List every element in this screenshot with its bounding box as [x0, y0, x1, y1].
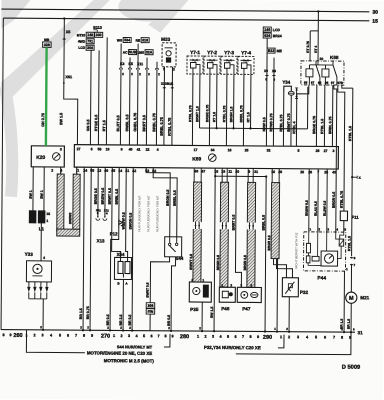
tag stub wire 2: [129, 58, 131, 68]
svg-text:RUB: RUB: [129, 50, 137, 54]
svg-text:30: 30: [320, 57, 324, 61]
svg-text:87B: 87B: [337, 81, 343, 85]
K20 symbol circle: [52, 153, 60, 161]
svg-text:BRGE 0.75: BRGE 0.75: [205, 105, 209, 123]
wire pin 15 down: [215, 168, 266, 176]
injector Y7-4 collector dot: [249, 127, 251, 129]
svg-text:P35: P35: [190, 307, 199, 312]
svg-text:X9: X9: [264, 69, 268, 73]
wire pin15 dots: [214, 175, 216, 177]
svg-text:X61: X61: [65, 75, 72, 79]
svg-text:8: 8: [83, 334, 85, 338]
svg-text:BRGN 0.5: BRGN 0.5: [332, 192, 336, 208]
svg-text:P32,Y34 NUR/ONLY C20 XE: P32,Y34 NUR/ONLY C20 XE: [204, 345, 261, 350]
injector Y7-3 symbol: [224, 59, 235, 61]
svg-text:RTBL 0.75: RTBL 0.75: [222, 106, 226, 123]
X13 connector a: [96, 218, 100, 220]
M33 wire b: [171, 67, 174, 145]
connector half-ring 4: [145, 68, 148, 70]
K68 box: [301, 61, 344, 85]
svg-text:BLSW 0.5: BLSW 0.5: [323, 201, 327, 216]
svg-text:6: 6: [234, 335, 236, 339]
svg-text:Y7-1: Y7-1: [190, 50, 200, 56]
svg-text:GNBL 0.75: GNBL 0.75: [133, 113, 137, 132]
svg-text:BLAU 0.5: BLAU 0.5: [314, 201, 318, 216]
engine note bracket left: [26, 330, 85, 353]
svg-text:17: 17: [194, 148, 198, 152]
watermark blob top-center: [118, 0, 178, 22]
watermark corner blob top-left: [1, 0, 31, 29]
K68 output wire x=332: [331, 85, 333, 146]
connector half-ring 2: [128, 68, 131, 70]
svg-text:34: 34: [211, 148, 215, 152]
svg-text:27: 27: [77, 147, 81, 151]
svg-text:SW 1.5: SW 1.5: [59, 113, 63, 125]
svg-text:BRWT 0.5: BRWT 0.5: [108, 188, 112, 204]
engine note bracket right: [236, 331, 351, 354]
svg-text:F/N: F/N: [148, 310, 154, 314]
connector half-ring 5: [155, 68, 158, 70]
svg-text:260: 260: [13, 333, 22, 339]
svg-text:X11: X11: [96, 208, 101, 212]
svg-text:328: 328: [44, 43, 50, 47]
svg-text:22: 22: [146, 148, 150, 152]
watermark arc left edge: [4, 87, 13, 197]
svg-text:BRBL 0.75: BRBL 0.75: [152, 113, 156, 132]
sensor P46 box: [219, 287, 235, 302]
injector Y7-1 right wire: [199, 74, 201, 128]
right rail wire upper: [352, 88, 353, 256]
svg-text:8: 8: [249, 335, 251, 339]
screened cable band 4: [271, 183, 280, 259]
svg-text:290: 290: [263, 335, 272, 341]
P12 wire to bus: [110, 227, 119, 330]
svg-text:M21: M21: [360, 295, 369, 300]
svg-text:SW 1: SW 1: [40, 190, 44, 199]
svg-text:P46: P46: [221, 306, 230, 311]
wire band4 to P32 b: [276, 259, 292, 278]
X10 connector marks: [163, 87, 165, 89]
screened cable U right leg: [73, 174, 80, 229]
K68 to fuse wire: [337, 85, 345, 211]
switch S44 box: [165, 237, 182, 257]
motor M21: [346, 292, 357, 303]
wire to ECU pin col 2: [128, 70, 131, 145]
svg-text:32: 32: [267, 149, 271, 153]
svg-text:11: 11: [228, 170, 232, 174]
injector Y7-1 box: [187, 56, 203, 74]
band4 shield ground wire: [276, 259, 279, 332]
P47 symbol: [241, 291, 248, 298]
svg-text:BR 0.5: BR 0.5: [106, 314, 110, 325]
K68 output wire x=324: [323, 85, 325, 146]
svg-text:K20: K20: [36, 155, 45, 161]
svg-text:RT 1.5: RT 1.5: [102, 120, 106, 131]
watermark diagonal stroke top-left: [1, 0, 111, 97]
svg-text:27: 27: [324, 149, 328, 153]
svg-text:SW/WS: SW/WS: [68, 212, 72, 224]
svg-text:15: 15: [46, 212, 50, 216]
wire to M21: [350, 265, 352, 292]
svg-text:BRGN 0.5: BRGN 0.5: [216, 255, 220, 270]
svg-text:X11: X11: [104, 208, 109, 212]
svg-text:Y33: Y33: [25, 252, 34, 257]
wire E113 b: [97, 50, 100, 144]
svg-text:BRGN 0.5: BRGN 0.5: [166, 190, 170, 206]
K68 output wire x=316: [315, 85, 317, 146]
ground bus 31: [1, 330, 355, 333]
svg-text:41: 41: [137, 148, 141, 152]
green wire: [45, 47, 48, 146]
tag stub wire 3: [137, 44, 139, 68]
spark plug lead 2: [34, 282, 36, 287]
K68 relay 2 contact: [333, 65, 337, 77]
svg-text:P32: P32: [300, 290, 309, 295]
svg-text:NRW 0.5: NRW 0.5: [262, 117, 266, 131]
svg-text:BR 1.5: BR 1.5: [340, 319, 344, 329]
svg-text:BRSW 0.5: BRSW 0.5: [101, 188, 105, 205]
svg-text:Y7-3: Y7-3: [224, 50, 234, 56]
P32 symbol: [285, 282, 294, 294]
svg-text:2: 2: [204, 335, 206, 339]
svg-text:MOTRONIC M 2.5 (MOT): MOTRONIC M 2.5 (MOT): [104, 358, 155, 363]
svg-text:P44: P44: [317, 275, 326, 281]
tag stub wire 4: [146, 58, 148, 68]
svg-text:RT 0.75: RT 0.75: [306, 41, 310, 53]
injector Y7-3 collector dot: [232, 127, 234, 129]
svg-text:Y7-4: Y7-4: [241, 50, 251, 56]
svg-text:K5: K5: [128, 62, 133, 66]
band 2 connector gap: [220, 222, 229, 229]
svg-text:GN 0.5: GN 0.5: [86, 119, 90, 131]
svg-text:330: 330: [96, 33, 102, 37]
screened cable band 2: [220, 182, 229, 287]
svg-text:S44 NUR/ONLY MT: S44 NUR/ONLY MT: [117, 344, 153, 349]
band pins 10/28 leads: [271, 169, 273, 183]
svg-text:1: 1: [280, 335, 282, 339]
wire to ECU pin col 4: [145, 70, 148, 145]
X13 connector b: [103, 218, 107, 220]
svg-text:BRGE 0.5: BRGE 0.5: [94, 188, 98, 204]
svg-text:RTBL 1.5: RTBL 1.5: [347, 236, 351, 251]
svg-text:9: 9: [91, 334, 93, 338]
M33 wire a: [163, 67, 166, 145]
svg-text:BRBL 0.5: BRBL 0.5: [173, 190, 177, 206]
connector half-ring 1: [119, 68, 122, 70]
tag stub wire 1: [120, 43, 122, 67]
svg-text:RT 1.5: RT 1.5: [246, 112, 250, 122]
svg-text:47: 47: [201, 169, 205, 173]
lambda probe P35 box: [189, 282, 211, 302]
svg-text:30: 30: [372, 10, 378, 16]
ECU K69 box: [74, 145, 338, 169]
svg-text:6: 6: [91, 147, 93, 151]
E113 tie line: [93, 29, 97, 31]
svg-text:AC: AC: [123, 50, 128, 54]
coil HT lead: [40, 223, 42, 261]
X54 terminals: [118, 261, 123, 273]
svg-text:9: 9: [121, 147, 123, 151]
injector Y7-3 right wire: [233, 74, 235, 128]
K20 wire to coil a: [32, 167, 34, 211]
band pins 48/47 leads: [193, 168, 195, 182]
spark plug lead 3: [40, 282, 42, 287]
svg-text:BLRT 0.5: BLRT 0.5: [116, 115, 120, 131]
svg-text:NUR FUER/ONLY FOR MT: NUR FUER/ONLY FOR MT: [155, 195, 159, 231]
svg-text:BR 1.5: BR 1.5: [347, 319, 351, 329]
injector Y7-2 box: [204, 56, 220, 74]
K68 supply branch: [310, 30, 318, 32]
band pins 9/31 leads: [247, 168, 249, 182]
injector Y7-4 box: [238, 56, 254, 74]
wire to ECU pin col 1: [119, 70, 122, 145]
svg-text:K68: K68: [330, 55, 339, 60]
svg-text:X9: X9: [272, 69, 276, 73]
injector Y7-3 box: [221, 56, 237, 74]
tag stub wire 5: [156, 62, 158, 68]
band pins 19/11 leads: [221, 168, 223, 182]
X8 inline connector: [351, 257, 353, 259]
svg-text:32A: 32A: [146, 50, 153, 54]
K68 relay 1 coil: [306, 69, 313, 77]
svg-text:SW 1: SW 1: [29, 190, 33, 199]
svg-text:P12: P12: [110, 231, 118, 236]
screened cable stub K20: [60, 167, 62, 174]
P35 symbol: [193, 287, 200, 294]
svg-text:BRWT 1.5: BRWT 1.5: [195, 106, 199, 122]
svg-text:48: 48: [194, 169, 198, 173]
svg-text:3: 3: [333, 149, 335, 153]
svg-text:BRGN 1.5: BRGN 1.5: [229, 106, 233, 122]
bus junction dots: [213, 330, 215, 332]
ECU wire 42 down: [132, 168, 133, 331]
P44 resistor 1: [306, 243, 310, 253]
svg-text:2: 2: [51, 169, 53, 173]
svg-text:731: 731: [87, 39, 93, 43]
fuse F11 lower wire: [343, 221, 345, 232]
svg-text:280: 280: [180, 334, 189, 340]
svg-text:25: 25: [245, 148, 249, 152]
svg-text:K69: K69: [192, 157, 201, 163]
P44 gauge box: [321, 251, 338, 266]
svg-text:SWBL 0.5: SWBL 0.5: [125, 114, 129, 131]
wire from tags a: [266, 38, 268, 48]
band 3 connector gap: [247, 222, 256, 229]
screened cable stub ECU pin1: [76, 167, 78, 174]
svg-text:RTBL 4: RTBL 4: [292, 121, 296, 133]
wire E113 c: [105, 37, 108, 144]
P35 ground wire: [201, 302, 203, 331]
collector riser to K68: [307, 87, 309, 129]
injector Y7-4 right wire: [250, 74, 252, 128]
svg-text:2: 2: [120, 334, 122, 338]
injector supply collector line: [200, 127, 308, 130]
injector Y7-2 collector dot: [215, 127, 217, 129]
wire band4 to P32 a: [273, 259, 286, 278]
octane plug X54 box: [114, 257, 131, 279]
wire to X13 b: [104, 167, 106, 216]
wire 266 down: [265, 177, 266, 332]
P44 sensor icon: [339, 239, 344, 246]
X54 ground wire: [122, 279, 124, 330]
svg-text:BRRT 0.5: BRRT 0.5: [142, 115, 146, 132]
X7 inline connector: [351, 264, 353, 266]
svg-text:6: 6: [150, 334, 152, 338]
svg-text:P47: P47: [242, 306, 251, 311]
svg-text:RTBL 0.75: RTBL 0.75: [279, 114, 283, 131]
spark leads collector: [29, 298, 47, 300]
X61 connector mark: [63, 82, 65, 84]
wire to X54 left: [112, 167, 122, 257]
svg-text:148: 148: [264, 28, 270, 32]
M21 ground wire: [350, 303, 352, 332]
K68 RTBL4 wire: [296, 85, 308, 147]
injector Y7-2 symbol: [207, 59, 218, 61]
P44 inner wires: [308, 232, 310, 243]
P12 symbol: [118, 218, 120, 227]
svg-text:NUR FUER/ONLY FOR MT: NUR FUER/ONLY FOR MT: [146, 195, 150, 231]
P32 ground wire: [288, 297, 290, 332]
svg-text:1: 1: [46, 219, 48, 223]
wire from tags a2: [273, 58, 275, 76]
svg-text:D 5009: D 5009: [342, 365, 360, 371]
svg-text:NUR FUER/ONLY FOR MT: NUR FUER/ONLY FOR MT: [137, 195, 141, 231]
svg-text:31: 31: [358, 330, 364, 335]
svg-text:5: 5: [227, 335, 229, 339]
svg-text:3: 3: [128, 334, 130, 338]
svg-text:X13: X13: [97, 238, 105, 243]
sensor P32 box: [282, 278, 298, 297]
wire E113 a: [89, 50, 92, 144]
Y34 wire left: [282, 93, 284, 146]
svg-text:1: 1: [197, 335, 199, 339]
fuse F11: [340, 211, 347, 221]
right rail junction: [351, 176, 353, 178]
screened cable band 1: [193, 182, 202, 282]
svg-text:BRSW 0.5: BRSW 0.5: [305, 200, 309, 216]
svg-text:BR 2.5: BR 2.5: [119, 314, 123, 325]
watermark diagonal stroke center: [148, 0, 188, 33]
K69 symbol circle: [208, 154, 216, 162]
tag 308 above bus: [146, 303, 155, 308]
spark plug lead 1: [28, 282, 30, 287]
wire 30 down: [235, 168, 242, 287]
svg-text:RTGE 0.5: RTGE 0.5: [94, 115, 98, 132]
wire to ECU pin col 3: [136, 70, 139, 145]
svg-text:87: 87: [311, 81, 315, 85]
K20 wire to coil b: [43, 167, 45, 211]
svg-text:X54: X54: [117, 252, 125, 257]
svg-text:BRGE 0.75: BRGE 0.75: [312, 116, 316, 134]
svg-text:20: 20: [300, 170, 304, 174]
K68 jog to right rail: [342, 85, 353, 88]
svg-text:BR 0.5: BR 0.5: [128, 315, 132, 326]
svg-text:7: 7: [242, 335, 244, 339]
svg-text:SWGN 0.5: SWGN 0.5: [129, 213, 133, 230]
wire X5: [63, 19, 78, 145]
svg-text:3: 3: [297, 335, 299, 339]
svg-text:NICHT BEI/NOT WITH P32: NICHT BEI/NOT WITH P32: [294, 232, 298, 269]
P44 resistor 2: [306, 256, 310, 263]
svg-text:7: 7: [75, 334, 77, 338]
svg-text:5: 5: [143, 334, 145, 338]
ECU wire 21 to X54 right: [126, 168, 129, 258]
tag 308 wire: [149, 314, 151, 330]
injector Y7-2 right wire: [216, 74, 218, 128]
svg-text:534: 534: [124, 38, 130, 42]
svg-text:ME: ME: [277, 49, 283, 53]
svg-text:BRBL 0.75: BRBL 0.75: [239, 105, 243, 122]
svg-text:270: 270: [101, 334, 110, 340]
ECU ground wire 24: [83, 167, 84, 330]
svg-text:RTBL 0.75: RTBL 0.75: [168, 118, 172, 136]
svg-text:LCD: LCD: [273, 28, 281, 32]
svg-text:RTBL 1.5: RTBL 1.5: [320, 119, 324, 134]
svg-text:15: 15: [372, 19, 378, 25]
svg-text:BRRT 0.5: BRRT 0.5: [232, 215, 236, 231]
svg-text:87: 87: [331, 81, 335, 85]
svg-text:LCD: LCD: [78, 46, 85, 50]
svg-text:RTBL 1.5: RTBL 1.5: [348, 126, 352, 141]
svg-text:3: 3: [60, 148, 62, 152]
S44 wire b: [153, 168, 178, 237]
spark plug lead 4: [46, 282, 48, 287]
svg-text:SW 1.5: SW 1.5: [210, 307, 214, 319]
svg-text:BR 0.75: BR 0.75: [86, 306, 90, 319]
svg-text:8: 8: [2, 333, 4, 337]
svg-text:SWWT 0.5: SWWT 0.5: [189, 254, 193, 270]
svg-text:WS: WS: [117, 38, 123, 42]
svg-text:3: 3: [41, 333, 43, 337]
svg-text:624: 624: [264, 34, 270, 38]
svg-text:S44: S44: [176, 256, 184, 261]
svg-text:RTBL 0.75: RTBL 0.75: [188, 105, 192, 122]
Y33 ground wire: [42, 299, 44, 330]
S44 switch symbol: [169, 237, 171, 243]
wire from tags b: [272, 76, 275, 146]
injector Y7-4 left wire: [242, 74, 245, 145]
svg-text:306: 306: [87, 46, 93, 50]
distributor Y33 box: [26, 261, 51, 282]
component M33 box: [162, 43, 176, 67]
X5 connector mark: [63, 38, 65, 40]
svg-text:31: 31: [254, 170, 258, 174]
screened cable U bottom: [57, 229, 80, 236]
svg-text:18: 18: [106, 147, 110, 151]
svg-text:7: 7: [157, 334, 159, 338]
svg-text:6: 6: [324, 335, 326, 339]
P46 symbol: [222, 291, 228, 298]
svg-text:BRGR 0.5: BRGR 0.5: [267, 235, 271, 250]
svg-text:85: 85: [318, 81, 322, 85]
svg-text:BRGN 0.5: BRGN 0.5: [243, 255, 247, 270]
svg-text:618: 618: [142, 38, 148, 42]
svg-text:3: 3: [212, 335, 214, 339]
svg-text:MT20: MT20: [77, 33, 86, 37]
injector Y7-3 left wire: [225, 74, 228, 145]
svg-text:BRBL 0.75: BRBL 0.75: [328, 116, 332, 134]
svg-text:2: 2: [33, 333, 35, 337]
svg-text:RT 4: RT 4: [314, 46, 318, 53]
svg-text:E113: E113: [93, 26, 102, 30]
K68 to P44 pin4 wire: [333, 85, 337, 232]
svg-text:4: 4: [157, 148, 159, 152]
tag LCD: [263, 27, 271, 32]
svg-text:8: 8: [341, 336, 343, 340]
svg-text:BRWT 0.75: BRWT 0.75: [287, 113, 291, 131]
P12 wire: [118, 167, 120, 218]
ECU ground wire 55: [90, 167, 91, 330]
